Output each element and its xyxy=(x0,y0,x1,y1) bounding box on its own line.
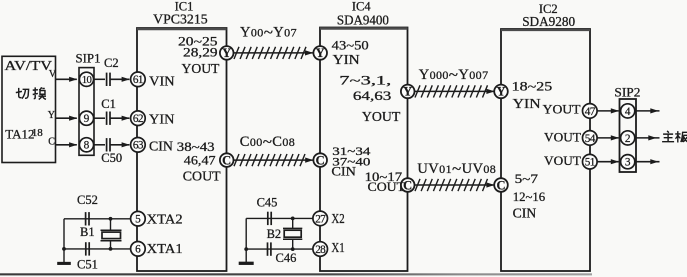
svg-text:VIN: VIN xyxy=(149,75,174,90)
svg-text:C2: C2 xyxy=(104,56,119,70)
svg-text:Y000~Y007: Y000~Y007 xyxy=(419,64,489,83)
svg-text:2: 2 xyxy=(625,133,631,145)
svg-text:3: 3 xyxy=(625,157,631,169)
svg-text:C: C xyxy=(403,178,412,192)
svg-text:YOUT: YOUT xyxy=(182,62,220,77)
svg-text:18: 18 xyxy=(32,127,44,139)
svg-text:C00~C08: C00~C08 xyxy=(240,131,295,150)
svg-text:61: 61 xyxy=(133,74,143,86)
svg-text:YIN: YIN xyxy=(513,97,541,112)
svg-text:UV01~UV08: UV01~UV08 xyxy=(417,159,496,178)
svg-text:7~3,1,: 7~3,1, xyxy=(339,72,391,87)
svg-text:C46: C46 xyxy=(276,251,297,265)
svg-text:54: 54 xyxy=(585,133,596,145)
svg-text:CIN: CIN xyxy=(513,205,537,220)
svg-text:18~25: 18~25 xyxy=(512,79,553,94)
svg-text:X2: X2 xyxy=(331,212,344,227)
svg-text:C50: C50 xyxy=(101,151,122,165)
svg-text:TA12: TA12 xyxy=(5,126,34,141)
svg-text:C52: C52 xyxy=(77,193,98,207)
svg-text:C51: C51 xyxy=(77,258,98,272)
svg-text:YOUT: YOUT xyxy=(362,110,401,125)
svg-text:CIN: CIN xyxy=(331,164,356,178)
svg-text:YIN: YIN xyxy=(149,112,174,127)
svg-text:27: 27 xyxy=(315,213,326,225)
svg-text:Y: Y xyxy=(496,85,505,99)
svg-text:43~50: 43~50 xyxy=(332,38,369,53)
svg-text:COUT: COUT xyxy=(368,179,406,194)
svg-text:YIN: YIN xyxy=(333,53,360,68)
svg-text:10: 10 xyxy=(82,74,92,86)
svg-text:8: 8 xyxy=(84,140,90,152)
svg-text:12~16: 12~16 xyxy=(513,189,546,204)
svg-text:SIP2: SIP2 xyxy=(614,85,640,100)
svg-text:IC4: IC4 xyxy=(352,0,372,13)
svg-text:XTA1: XTA1 xyxy=(147,242,183,257)
svg-text:5~7: 5~7 xyxy=(515,171,539,186)
svg-text:63: 63 xyxy=(133,140,144,152)
svg-text:51: 51 xyxy=(585,157,595,169)
svg-text:5: 5 xyxy=(135,214,141,226)
svg-text:28,29: 28,29 xyxy=(183,45,218,60)
svg-text:C: C xyxy=(316,153,325,167)
svg-text:4: 4 xyxy=(625,106,631,118)
svg-text:YOUT: YOUT xyxy=(543,103,581,117)
svg-text:Y00~Y07: Y00~Y07 xyxy=(240,22,297,41)
svg-text:C: C xyxy=(496,178,505,192)
svg-text:Y: Y xyxy=(316,46,325,60)
svg-text:6: 6 xyxy=(135,244,141,256)
svg-text:XTA2: XTA2 xyxy=(147,213,183,228)
svg-text:B1: B1 xyxy=(80,225,95,239)
svg-text:C: C xyxy=(222,153,231,167)
svg-text:CIN: CIN xyxy=(149,140,173,155)
svg-text:28: 28 xyxy=(315,244,326,256)
svg-text:SIP1: SIP1 xyxy=(76,51,101,66)
svg-text:38~43: 38~43 xyxy=(177,139,215,154)
svg-text:C: C xyxy=(48,136,55,147)
svg-text:C45: C45 xyxy=(257,195,278,209)
svg-text:V: V xyxy=(49,69,57,80)
svg-text:VOUT: VOUT xyxy=(544,154,581,168)
svg-text:46,47: 46,47 xyxy=(184,153,216,168)
svg-text:X1: X1 xyxy=(331,241,344,256)
svg-text:B2: B2 xyxy=(267,227,282,241)
svg-text:VOUT: VOUT xyxy=(544,131,581,145)
svg-text:9: 9 xyxy=(84,113,90,125)
svg-text:62: 62 xyxy=(133,113,143,125)
svg-text:Y: Y xyxy=(48,110,55,121)
svg-text:AV/TV: AV/TV xyxy=(5,58,53,73)
svg-text:C1: C1 xyxy=(101,97,116,111)
svg-text:Y: Y xyxy=(403,85,412,99)
svg-text:SDA9280: SDA9280 xyxy=(522,14,575,29)
svg-text:47: 47 xyxy=(585,106,596,118)
svg-text:COUT: COUT xyxy=(183,170,221,185)
svg-text:64,63: 64,63 xyxy=(353,88,391,103)
svg-text:VPC3215: VPC3215 xyxy=(153,11,208,26)
svg-text:SDA9400: SDA9400 xyxy=(337,12,389,27)
svg-text:Y: Y xyxy=(222,46,231,60)
